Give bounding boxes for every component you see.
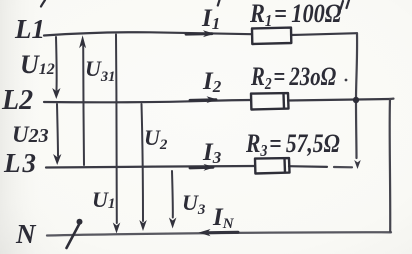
svg-text:R3 = 57,5Ω: R3 = 57,5Ω [245,130,340,160]
svg-text:R2 = 23oΩ: R2 = 23oΩ [250,63,336,94]
svg-text:L2: L2 [1,85,33,116]
svg-text:L3: L3 [3,148,36,178]
svg-text:R1 = 100Ω: R1 = 100Ω [249,0,341,30]
svg-text:N: N [15,219,37,249]
svg-text:U23: U23 [12,122,49,147]
svg-text:L1: L1 [14,14,45,44]
